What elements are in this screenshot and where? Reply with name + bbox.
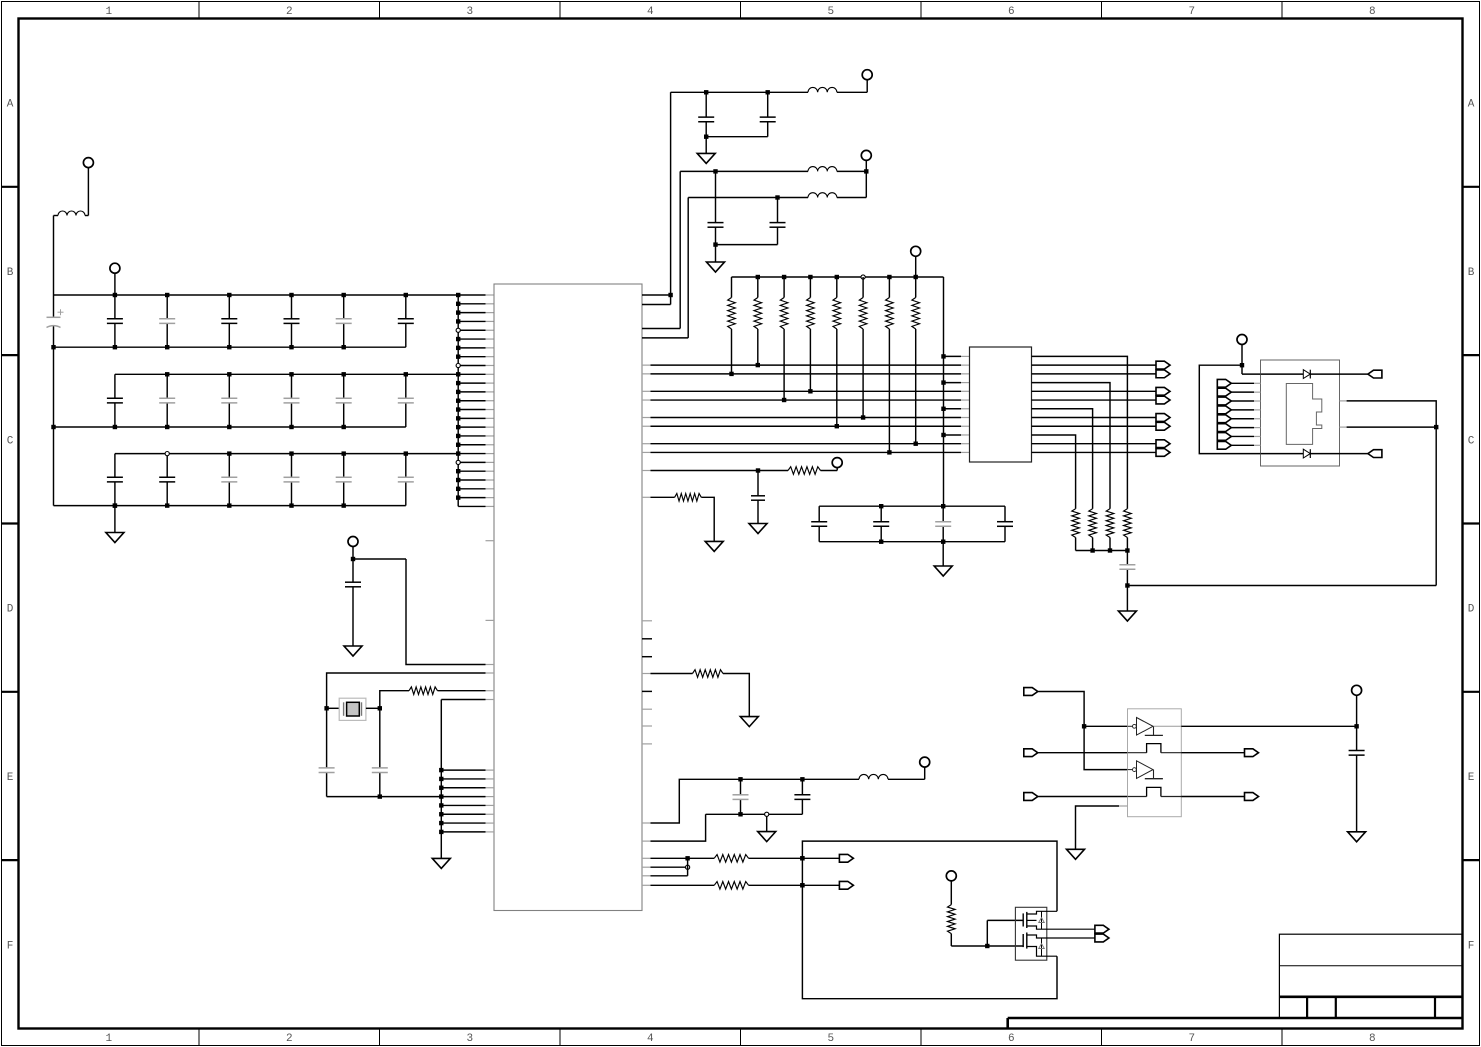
wire [1231, 382, 1254, 384]
node dots pull-up bus [756, 275, 760, 279]
wire [1340, 426, 1347, 428]
node dots row2 C24 [289, 372, 293, 376]
bus [706, 813, 803, 815]
resistor R24 [809, 277, 811, 298]
svg-text:4: 4 [647, 6, 654, 18]
bus [706, 136, 768, 138]
node dots gnd bus [439, 768, 443, 772]
node B [324, 706, 328, 710]
wire [1241, 344, 1243, 374]
bus cap bank bottom [819, 541, 1005, 543]
resistor R42 [675, 494, 702, 502]
wire [1199, 365, 1260, 453]
bus pull-up top [732, 276, 944, 278]
capacitor C51 [767, 92, 769, 117]
node N [1082, 724, 1086, 728]
wire U2 pin8 [1032, 417, 1157, 419]
resistor R31 [1124, 509, 1132, 538]
wire [642, 857, 651, 859]
node dots row1 C16 [342, 293, 346, 297]
capacitor C74 [1004, 506, 1006, 522]
node I [756, 468, 760, 472]
wire [723, 674, 749, 717]
wire [1242, 373, 1261, 375]
svg-text:B: B [1468, 267, 1475, 279]
capacitor C26 [405, 374, 407, 398]
resistor R310 [1072, 509, 1080, 538]
node K [685, 856, 689, 860]
capacitor C90 [740, 779, 742, 795]
port in [1024, 793, 1038, 801]
wire [749, 857, 840, 859]
terminal P8 [920, 757, 930, 767]
wire AVDD1 [671, 91, 808, 93]
wire [1231, 444, 1254, 446]
resistor R23 [783, 277, 785, 298]
wire [642, 866, 651, 868]
node dots pin bus [456, 293, 460, 297]
port out [839, 881, 853, 889]
node dots row2 C23 [227, 372, 231, 376]
U1 right stubs [642, 620, 652, 622]
wire AVDD2a [680, 170, 808, 172]
port LED1 [1368, 370, 1382, 378]
svg-text:1: 1 [105, 1033, 112, 1045]
terminal P2 [110, 263, 120, 273]
U1 left nc stubs [486, 540, 495, 542]
node C [378, 794, 382, 798]
resistor R25 [836, 277, 838, 298]
U1 pin stub [486, 664, 495, 666]
node dots row2 C22 [165, 372, 169, 376]
wire [438, 690, 486, 692]
capacitor C71 [818, 506, 820, 522]
wire [687, 858, 689, 876]
wire [1084, 725, 1127, 727]
terminal P1 [83, 158, 93, 168]
port J1 pin4 [1217, 406, 1231, 414]
ground [697, 153, 715, 163]
svg-text:4: 4 [647, 1033, 654, 1045]
node dots row2 C25 [342, 372, 346, 376]
svg-text:7: 7 [1188, 6, 1195, 18]
wire XTAL2 [380, 691, 409, 709]
node dots row1 C17 [404, 293, 408, 297]
wire [114, 273, 116, 295]
wire [1127, 585, 1436, 587]
bus [716, 244, 778, 246]
node dots row2 C26 [404, 372, 408, 376]
resistor R37 [1089, 509, 1097, 538]
node dots cap bank [879, 504, 883, 508]
node G [713, 242, 717, 246]
inductor L1 [54, 215, 59, 217]
port out [1156, 396, 1170, 404]
node E [704, 135, 708, 139]
bus row2 bottom [54, 426, 406, 428]
capacitor C72 [880, 506, 882, 522]
capacitor C52 [715, 171, 717, 222]
port J1 pin5 [1217, 415, 1231, 423]
svg-text:B: B [7, 267, 14, 279]
node dots row3 C33 [227, 451, 231, 455]
capacitor C80 [757, 471, 759, 496]
capacitor C21 [114, 374, 116, 398]
svg-text:8: 8 [1369, 1033, 1376, 1045]
bus row1 bottom [54, 346, 406, 348]
resistor R10 [409, 687, 438, 695]
node F [864, 169, 868, 173]
node J [765, 812, 769, 816]
wire [1261, 453, 1304, 455]
svg-text:D: D [7, 604, 14, 616]
terminal P4 [862, 70, 872, 80]
port in [1024, 688, 1038, 696]
wire U2 pin4 [1032, 383, 1111, 509]
capacitor C31 [114, 454, 116, 478]
svg-text:8: 8 [1369, 6, 1376, 18]
wire [327, 707, 340, 709]
wire [986, 920, 988, 946]
resistor R41 [788, 467, 821, 475]
resistor R22 [757, 277, 759, 298]
wire [1435, 427, 1437, 585]
resistor R50 [948, 905, 956, 934]
node dots row1 C13 [165, 293, 169, 297]
port LED2 [1368, 450, 1382, 458]
wire [1181, 796, 1244, 798]
node dots row1 C15 [289, 293, 293, 297]
connector J1 jack symbol [1286, 384, 1322, 445]
node R23 [782, 398, 786, 402]
inductor L3 [808, 167, 837, 172]
ground [707, 262, 725, 272]
svg-text:C: C [1468, 435, 1475, 447]
port J1 pin2 [1217, 388, 1231, 396]
capacitor C41 [326, 708, 328, 768]
wire U2 pin6 [1032, 399, 1157, 401]
wire [87, 167, 89, 215]
capacitor C42 [379, 708, 381, 768]
capacitor C17 [405, 295, 407, 319]
node R26 [861, 415, 865, 419]
inductor L2 [808, 87, 837, 92]
port out [1245, 749, 1259, 757]
wire [1181, 725, 1356, 727]
IC U2 [970, 347, 1032, 462]
wire [642, 294, 671, 296]
capacitor C34 [291, 454, 293, 478]
node dots loop [800, 856, 804, 860]
capacitor C36 [405, 454, 407, 478]
port out [1095, 934, 1109, 942]
port out [1156, 414, 1170, 422]
capacitor C73 [942, 506, 944, 522]
inductor L5 [859, 774, 888, 779]
svg-text:F: F [1468, 940, 1475, 952]
wire [705, 137, 707, 154]
wire [1181, 752, 1244, 754]
node dots row1 C14 [227, 293, 231, 297]
ground [344, 646, 362, 656]
port out [839, 854, 853, 862]
svg-text:5: 5 [827, 1033, 834, 1045]
svg-text:1: 1 [105, 6, 112, 18]
wire [915, 256, 917, 277]
port out [1156, 422, 1170, 430]
wire [749, 884, 840, 886]
wire [1038, 752, 1127, 754]
terminal P9 [946, 871, 956, 881]
node dots row3 C35 [342, 451, 346, 455]
svg-text:D: D [1468, 604, 1475, 616]
wire [53, 216, 55, 296]
diode D2 [1303, 449, 1310, 458]
wire [642, 875, 651, 877]
svg-text:A: A [1468, 99, 1475, 111]
svg-text:E: E [7, 772, 14, 784]
wire U2 pin2 [1032, 364, 1157, 366]
capacitor C14 [228, 295, 230, 319]
wire U2 pin3 [1032, 373, 1157, 375]
port J1 pin7 [1217, 433, 1231, 441]
wire [1310, 373, 1339, 375]
wire [642, 496, 651, 498]
node L [686, 865, 690, 869]
node dots row3 C34 [289, 451, 293, 455]
wire [1231, 427, 1254, 429]
wire loop [802, 841, 1057, 999]
gnd pin bus [440, 700, 442, 859]
wire [1231, 400, 1254, 402]
resistor R28 [915, 277, 917, 298]
capacitor C12 [114, 295, 116, 319]
wire AVDD2b [688, 197, 808, 199]
wire [950, 934, 952, 946]
node dots row3 C32 [165, 452, 169, 456]
capacitor C24 [291, 374, 293, 398]
resistor R45 [714, 882, 748, 890]
svg-text:3: 3 [466, 1033, 473, 1045]
inductor L4 [808, 193, 837, 198]
node A [351, 557, 355, 561]
svg-text:A: A [7, 99, 14, 111]
wire feed [943, 277, 945, 506]
wire [1231, 418, 1254, 420]
port out [1156, 449, 1170, 457]
capacitor C35 [343, 454, 345, 478]
node dots row1 C12 [113, 293, 117, 297]
bus left vertical [53, 295, 55, 317]
node dots row2 C21 [113, 425, 117, 429]
svg-text:7: 7 [1188, 1033, 1195, 1045]
capacitor C22 [166, 374, 168, 398]
resistor R44 [714, 855, 748, 863]
port J1 pin6 [1217, 424, 1231, 432]
port J1 pin8 [1217, 441, 1231, 449]
wire [114, 506, 116, 533]
node dot [800, 883, 804, 887]
IC U1 [494, 284, 642, 911]
capacitor C91 [801, 779, 803, 795]
wire [642, 840, 651, 842]
node M [985, 944, 989, 948]
wire [715, 245, 717, 262]
capacitor C1 polarized [47, 316, 61, 318]
terminal P7 [832, 458, 842, 468]
node R22 [756, 363, 760, 367]
crystal Y1 [339, 698, 366, 720]
wire U2 pin7 [1032, 409, 1093, 509]
ground [1118, 611, 1136, 621]
node H [1125, 583, 1129, 587]
bus VCC row2 [115, 373, 458, 375]
wire [1038, 692, 1127, 770]
node dots left bus [51, 345, 55, 349]
power pin bus [457, 295, 459, 506]
wire [701, 497, 714, 541]
wire [837, 91, 867, 93]
wire [821, 470, 838, 472]
capacitor C50 [705, 92, 707, 117]
capacitor C60 [1126, 551, 1128, 565]
wire U2 pin1 [1032, 356, 1128, 508]
node dots [738, 777, 742, 781]
wire U2 pin11 [1032, 443, 1157, 445]
node D [668, 293, 672, 297]
node dots [1090, 548, 1094, 552]
wire [942, 542, 944, 566]
title block [1008, 1017, 1463, 1020]
svg-text:6: 6 [1008, 1033, 1015, 1045]
svg-text:3: 3 [466, 6, 473, 18]
transistor Q1 dual MOSFET [1015, 907, 1046, 960]
svg-text:F: F [7, 940, 14, 952]
wire [865, 160, 867, 171]
node R25 [835, 424, 839, 428]
wire [1261, 373, 1304, 375]
port out [1245, 793, 1259, 801]
bus VCC row3 [115, 453, 458, 455]
resistor R43 [693, 670, 724, 678]
node dot [738, 812, 742, 816]
node dots row3 C36 [404, 451, 408, 455]
capacitor C40 [352, 559, 354, 582]
bus row3 bottom [54, 505, 406, 507]
ground [934, 566, 952, 576]
resistor R21 [731, 277, 733, 298]
wire [837, 170, 866, 172]
terminal P6 [911, 246, 921, 256]
svg-text:6: 6 [1008, 6, 1015, 18]
svg-text:C: C [7, 435, 14, 447]
wire U2 pin9 [1032, 425, 1157, 427]
net lines U1-U2 [642, 364, 651, 366]
node dot [800, 856, 804, 860]
port out [1156, 370, 1170, 378]
diode D1 [1303, 370, 1310, 379]
port out [1156, 387, 1170, 395]
terminal P10 [1352, 685, 1362, 695]
ground [1348, 832, 1366, 842]
wire [766, 816, 768, 831]
bus term [1076, 550, 1128, 552]
node O [1354, 724, 1358, 728]
node dots row3 C31 [113, 503, 117, 507]
IC U3 buffer block [1128, 709, 1182, 817]
wire [1038, 796, 1127, 798]
wire [837, 197, 866, 199]
port J1 pin3 [1217, 397, 1231, 405]
capacitor C13 [166, 295, 168, 319]
wire [642, 822, 651, 824]
node dots [704, 90, 708, 94]
wire XTAL1 [327, 673, 486, 708]
terminal P3 [348, 537, 358, 547]
terminal P5 [861, 150, 871, 160]
ground [740, 717, 758, 727]
port out [1156, 361, 1170, 369]
wire [642, 470, 651, 472]
svg-text:2: 2 [286, 1033, 293, 1045]
port out [1095, 925, 1109, 933]
capacitor C15 [291, 295, 293, 319]
wire [1310, 453, 1339, 455]
ground [1067, 849, 1085, 859]
port in [1024, 749, 1038, 757]
resistor R34 [1106, 509, 1114, 538]
wire U2 pin12 [1032, 451, 1157, 453]
node dot [713, 169, 717, 173]
terminal P11 [1237, 335, 1247, 345]
capacitor C33 [228, 454, 230, 478]
wire [888, 778, 925, 780]
node R27 [887, 450, 891, 454]
node R21 [729, 372, 733, 376]
capacitor C95 [1356, 726, 1358, 750]
port out [1156, 440, 1170, 448]
capacitor C53 [777, 198, 779, 223]
ground [705, 541, 723, 551]
wire U2 pin10 [1032, 435, 1076, 509]
wire [642, 884, 651, 886]
bus xtal gnd [327, 796, 442, 798]
port J1 pin1 [1217, 379, 1231, 387]
capacitor C25 [343, 374, 345, 398]
wire [1356, 695, 1358, 726]
node dot gnd stub [113, 503, 117, 507]
node R24 [808, 389, 812, 393]
wire [950, 881, 952, 905]
ground [106, 533, 124, 543]
node Q [1434, 425, 1438, 429]
wire [642, 328, 680, 330]
resistor R26 [862, 277, 864, 298]
node R28 [914, 442, 918, 446]
capacitor C32 [166, 454, 168, 478]
node P [1240, 363, 1244, 367]
wire [352, 546, 354, 559]
wire [1231, 435, 1254, 437]
bus VCC row1 [54, 294, 459, 296]
wire U2 pin5 [1032, 390, 1157, 392]
node dots feed [941, 354, 945, 358]
svg-text:E: E [1468, 772, 1475, 784]
wire [642, 337, 688, 339]
wire [1340, 400, 1347, 402]
wire [642, 673, 651, 675]
bus cap bank top [819, 505, 1005, 507]
